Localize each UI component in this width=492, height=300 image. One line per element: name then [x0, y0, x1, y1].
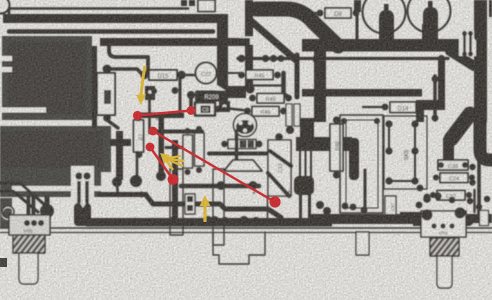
- connector tab right edge: [480, 211, 489, 226]
- wire bar elbow to VR4: [400, 212, 422, 221]
- wire t3 thick step: [146, 195, 281, 218]
- resistor R46: [252, 107, 279, 117]
- resistor R1 tall left: [97, 73, 115, 115]
- pad window white: [240, 37, 253, 45]
- switch SK5 pad field outline: [384, 116, 427, 189]
- ground plane block left-mid: [0, 126, 111, 172]
- component outline tall mid 1: [170, 169, 183, 235]
- annotation red line 3: [150, 147, 173, 180]
- mounting hole left: [2, 206, 14, 218]
- wire mid vertical x318: [314, 46, 326, 122]
- wire block B right edge: [116, 131, 123, 180]
- annotation yellow arrow 1: [141, 66, 145, 96]
- potentiometer VR4 bushing: [430, 238, 459, 256]
- capacitor legs bottom-left: [71, 166, 94, 206]
- pad blob right of C13: [294, 176, 314, 195]
- wire pad to D15: [107, 69, 142, 74]
- wire inside SK5: [364, 170, 367, 207]
- capacitor can C33 outline: [408, 0, 451, 33]
- capacitor body dome C33: [423, 7, 438, 31]
- capacitor body dome C31: [379, 10, 394, 33]
- wire triple lines to blob: [299, 151, 301, 177]
- wire D15 to C22: [182, 74, 196, 77]
- wire D15 right lead down: [179, 78, 182, 114]
- wire nested corner L2: [9, 29, 213, 34]
- scan artifact left edge: [0, 258, 7, 267]
- wire D8 top stub: [354, 0, 361, 12]
- jack J1 outline: [213, 232, 265, 264]
- wire along block edge: [92, 46, 97, 128]
- annotation yellow arrow 2: [166, 156, 181, 159]
- wire right vertical bus: [474, 0, 487, 122]
- board edge line: [0, 227, 492, 229]
- potentiometer VR5 body: [9, 215, 50, 235]
- junction blob below legs: [74, 203, 91, 226]
- wire block B stub right: [110, 139, 131, 146]
- potentiometer VR5 shaft: [19, 253, 38, 284]
- wire nested corner L1: [3, 14, 222, 23]
- resistor R49: [257, 94, 284, 104]
- resistor R16 small box: [185, 194, 195, 214]
- ground plane lower lobe: [0, 170, 101, 197]
- wire top bar 1: [9, 9, 188, 19]
- capacitor C32: [437, 191, 465, 201]
- junction pads on net y59: [238, 55, 246, 63]
- wire vertical x236: [235, 131, 238, 159]
- switch SK5 outline: [340, 115, 383, 213]
- junction pads SK5 bottom: [342, 203, 349, 210]
- jack J2 tab: [356, 232, 369, 255]
- wire long top bus bar: [100, 38, 250, 46]
- resistor R45: [246, 70, 273, 80]
- capacitor C13: [268, 140, 291, 196]
- resistor R44 vertical: [195, 133, 205, 166]
- wire thick elbow above C13: [296, 137, 352, 151]
- wire bottom bar left-mid: [86, 218, 332, 227]
- component trapezoid outline: [224, 160, 262, 171]
- junction pads on bottom bar: [131, 218, 139, 226]
- wire blob legs down: [299, 193, 302, 218]
- component outline tall mid 2: [213, 169, 224, 245]
- wire below R1 pad: [107, 120, 118, 128]
- wire junction bar y131: [152, 130, 202, 134]
- pad hole left edge slot 1: [0, 56, 12, 61]
- wire square pad down: [148, 100, 151, 133]
- wire bar nub: [474, 25, 483, 41]
- resistor R48: [330, 124, 343, 171]
- wire stub top right corner: [489, 0, 492, 17]
- switch SK5 slider blob: [349, 138, 359, 180]
- mounting hole arc top-left corner: [0, 0, 10, 14]
- wire D14 bar and drop: [416, 100, 445, 110]
- wire R45 right column: [284, 73, 289, 97]
- wire right bus Z step: [451, 114, 470, 139]
- potentiometer VR5 bushing: [13, 235, 45, 253]
- wire square pad to R46: [224, 108, 247, 111]
- wire bar right of VR4: [465, 214, 492, 223]
- node big pad above VR5: [45, 196, 50, 208]
- diode D14: [390, 102, 416, 113]
- wire stub to R43: [166, 146, 182, 149]
- potentiometer VR4 shaft: [437, 256, 452, 288]
- wire right bus down to C38: [443, 138, 454, 162]
- wire bus jog to D15: [109, 46, 148, 72]
- wire thin net y59: [238, 57, 448, 60]
- wire C13 edge down: [267, 196, 269, 218]
- capacitor C20 striped body: [228, 140, 256, 149]
- annotation red line 1: [138, 111, 192, 116]
- ground plane block top-left: [2, 36, 92, 120]
- node pads above VR4 body: [423, 195, 431, 203]
- annotation red line 2: [153, 131, 275, 202]
- component small boxes right of R49: [286, 104, 292, 126]
- wire vertical Vb: [172, 140, 178, 218]
- wire D8 lead left: [311, 12, 319, 14]
- wire t3 thin: [100, 192, 146, 197]
- wire staircase below block B 2: [0, 191, 38, 212]
- potentiometer VR4 body: [421, 211, 466, 237]
- capacitor C24: [440, 173, 468, 183]
- diode D8: [325, 8, 351, 18]
- wire thin y73: [218, 72, 240, 74]
- capacitor C22: [196, 63, 217, 84]
- wire mid horizontal t2: [181, 184, 259, 189]
- capacitor C8: [195, 103, 215, 116]
- wire vertical pair right edge: [473, 190, 475, 212]
- junction pads right edge: [469, 164, 475, 170]
- junction pads above R209: [151, 88, 157, 94]
- transistor Q1: [234, 114, 257, 137]
- wire bus corner to vertical: [450, 51, 474, 66]
- node pad A: [103, 65, 112, 74]
- wire mid bus bar lower: [302, 89, 422, 97]
- mounting hole white ring: [2, 207, 14, 219]
- wire T vertical: [159, 116, 165, 174]
- connector box top: [198, 0, 215, 12]
- wire T bar: [140, 113, 184, 119]
- wire bottom bar right: [310, 214, 450, 224]
- wire R7 lead down: [136, 152, 139, 175]
- wire cap can lead stub: [379, 28, 394, 46]
- wire mid vertical join: [300, 118, 314, 142]
- node pad V1 bottom: [246, 85, 255, 94]
- wire right edge thin drop: [477, 162, 481, 220]
- pad hole left edge slot 2: [0, 67, 12, 72]
- wire D14 leads: [363, 106, 382, 108]
- wire D8 right lead down: [356, 16, 359, 40]
- wire center vertical bundle V1: [245, 0, 253, 90]
- resistor R43 vertical: [183, 135, 193, 168]
- wire diagonal d2: [251, 21, 296, 60]
- wire staircase below block B 1: [0, 183, 46, 206]
- wire switch pad links: [388, 124, 390, 151]
- diode D15: [149, 70, 177, 80]
- switch pads: [385, 120, 392, 127]
- routing channel white A: [12, 186, 101, 191]
- resistor label box black: [195, 91, 228, 102]
- capacitor can C31 outline: [363, 0, 406, 34]
- pad square below D15: [145, 86, 155, 100]
- capacitor legs window in bus bar: [459, 31, 476, 56]
- capacitor C57 vertical: [385, 196, 396, 221]
- wire top thick elbow: [256, 9, 338, 46]
- wire stub above C8 pad: [189, 93, 193, 107]
- wire vertical x297: [295, 55, 300, 97]
- wire right edge elbow down: [480, 118, 492, 160]
- wire mid horizontal t1: [209, 152, 268, 156]
- potentiometer VR5 leads: [27, 196, 31, 216]
- resistor R7: [134, 120, 144, 152]
- wire bar C22 to mid bus lower: [218, 86, 246, 98]
- capacitor C38: [438, 160, 468, 170]
- wire left vertical x435: [433, 76, 436, 120]
- pad square right of C8: [219, 101, 230, 112]
- annotation yellow arrow 3: [203, 203, 206, 222]
- node pads above VR4: [417, 185, 424, 192]
- wire right bus bar upper: [302, 39, 478, 52]
- wire thin y85: [246, 84, 281, 86]
